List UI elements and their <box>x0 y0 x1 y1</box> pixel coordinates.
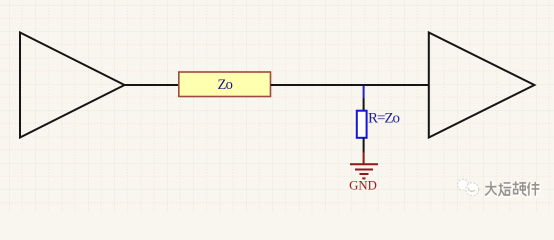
watermark text 大话硬件 (hand-drawn glyphs) <box>486 182 540 197</box>
resistor R1 (termination, vertical) <box>357 111 367 138</box>
wire: pin to resistor R top <box>363 98 365 111</box>
wire: Zo to receiver <box>271 84 429 86</box>
wire: resistor R bottom pin <box>363 138 365 153</box>
svg-text:R=Zo: R=Zo <box>368 111 399 127</box>
node/junction drop wire (blue segment) <box>363 86 365 98</box>
wire: driver output to Zo <box>125 84 180 86</box>
svg-text:GND: GND <box>349 179 377 193</box>
buffer/driver triangle U1 (left) <box>20 33 125 138</box>
resistor Zo (series transmission line impedance) <box>179 72 271 97</box>
watermark logo (two chat bubbles) <box>458 179 479 196</box>
svg-text:Zo: Zo <box>218 77 233 93</box>
ground GND symbol <box>350 152 378 178</box>
buffer/receiver triangle U2 (right) <box>429 33 535 138</box>
